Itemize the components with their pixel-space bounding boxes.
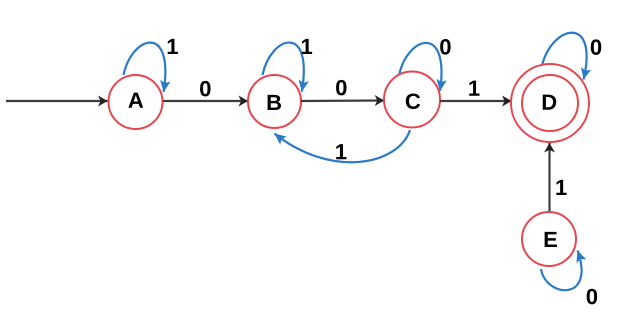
label 1 on back edge [336,144,346,159]
label 0 on E self-loop [587,289,597,305]
self-loop on C [399,43,441,91]
edge C to D [440,100,512,102]
label 0 on C self-loop [440,39,450,55]
self-loop on B [263,43,304,92]
label 1 on B self-loop [302,39,312,54]
label 1 on edge E-D [556,180,566,195]
edge E to D [548,143,550,212]
self-loop on E [541,251,582,291]
blue back edge C to B [275,130,411,162]
self-loop on A [124,43,166,92]
label 0 on edge B-C [336,80,346,96]
edge B to C [301,99,384,102]
state C [384,72,440,128]
edge A to B [163,100,248,102]
state B [248,75,301,128]
state A [109,75,163,129]
state D accepting double circle [511,64,589,142]
self-loop on D [542,33,587,80]
label 0 on edge A-B [200,81,210,97]
label 1 on edge C-D [469,81,479,96]
label 1 on A self-loop [168,39,178,54]
initial start arrow into state A [6,100,108,102]
state E [522,212,576,266]
label 0 on D self-loop [591,39,601,55]
